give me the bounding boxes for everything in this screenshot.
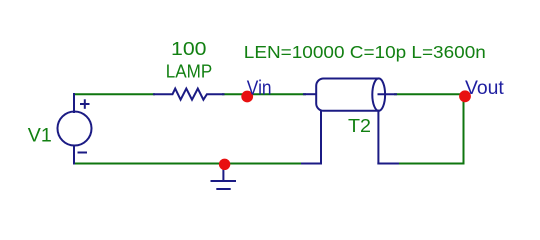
wire bottom right: [397, 163, 464, 165]
node dot ground junction: [219, 159, 230, 170]
node dot Vout: [459, 90, 471, 102]
svg-text:100: 100: [171, 39, 207, 59]
transmission line T2: [302, 78, 398, 163]
wire bottom left to V1: [74, 163, 224, 165]
svg-text:V1: V1: [28, 125, 52, 146]
wire top-left from V1 to R1: [74, 93, 154, 95]
svg-text:LAMP: LAMP: [166, 61, 213, 81]
svg-text:Vin: Vin: [247, 78, 272, 100]
ground: [212, 165, 236, 190]
svg-text:LEN=10000 C=10p L=3600n: LEN=10000 C=10p L=3600n: [244, 42, 486, 62]
voltage source V1: [58, 94, 92, 164]
svg-text:Vout: Vout: [465, 78, 505, 99]
svg-text:T2: T2: [348, 116, 371, 136]
wire from T2 to node Vout: [395, 93, 464, 95]
wire bottom middle to ground node: [224, 163, 303, 165]
node dot Vin: [241, 91, 253, 103]
wire from R1 to T2 through node Vin: [223, 93, 305, 95]
wire right vertical Vout down: [463, 94, 465, 163]
resistor R1 (100 LAMP): [154, 89, 224, 100]
